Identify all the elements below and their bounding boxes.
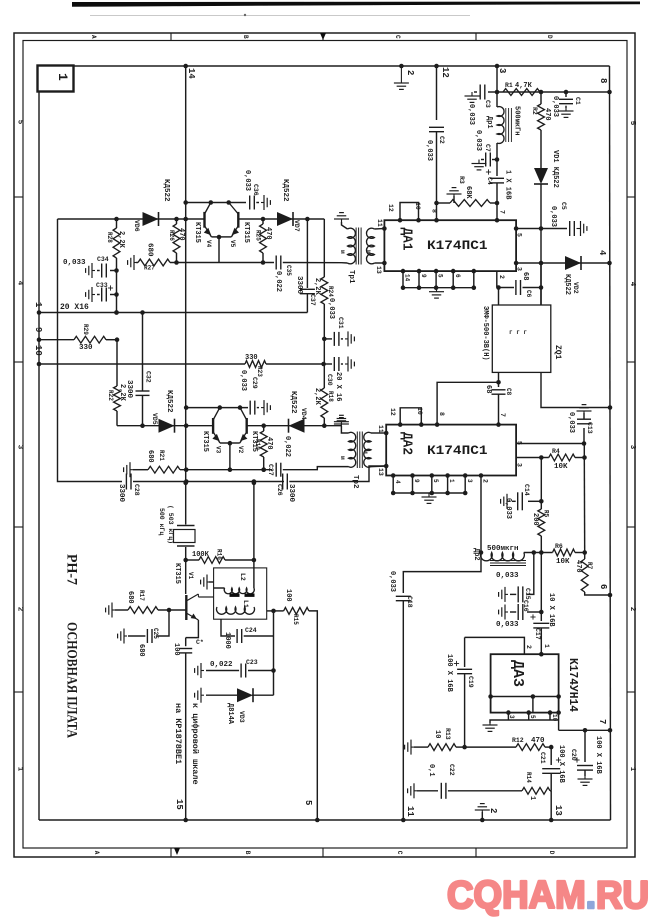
svg-text:1: 1	[628, 767, 636, 772]
wire pin8-pin7 with R3	[437, 202, 451, 204]
op-amp U DA3 K174UN14 box	[491, 654, 559, 712]
svg-text:0,033: 0,033	[496, 621, 519, 629]
node 12	[434, 64, 439, 69]
resistor R15	[284, 608, 309, 615]
svg-text:5: 5	[516, 233, 523, 237]
svg-text:9: 9	[33, 327, 43, 332]
frame zone ticks left	[14, 196, 23, 198]
svg-text:м: м	[339, 250, 346, 254]
resistor R12 row	[465, 746, 516, 748]
svg-text:R27: R27	[144, 265, 155, 272]
svg-text:A: A	[90, 35, 97, 39]
svg-text:12: 12	[387, 204, 394, 212]
wire pin2 row y637	[465, 637, 525, 654]
DA1 pin loop 12-10	[400, 203, 419, 221]
svg-text:С6: С6	[525, 290, 532, 298]
capacitor C13	[583, 428, 585, 444]
svg-text:1: 1	[33, 302, 43, 308]
capacitor C30 electrolytic	[324, 363, 332, 365]
svg-text:R6: R6	[555, 543, 563, 550]
capacitor C6	[515, 280, 517, 295]
svg-text:5: 5	[516, 441, 523, 445]
svg-text:С7: С7	[484, 144, 491, 152]
wire R15 row net 5	[267, 610, 274, 612]
svg-text:R14: R14	[525, 772, 532, 783]
wire left bus	[38, 92, 40, 821]
svg-text:470: 470	[574, 560, 582, 573]
svg-text:2,2К: 2,2К	[117, 231, 125, 249]
wire net 10	[39, 363, 245, 365]
wire R16 to L2	[253, 560, 255, 588]
svg-text:6: 6	[598, 584, 608, 589]
diode VD6	[143, 212, 159, 226]
svg-text:С25: С25	[152, 628, 159, 639]
resistor R3	[450, 200, 490, 207]
svg-text:10: 10	[551, 714, 558, 722]
capacitor C2	[429, 126, 444, 128]
svg-text:68: 68	[484, 385, 492, 393]
resistor R19	[263, 426, 265, 431]
wire net 8	[497, 91, 610, 93]
svg-text:470: 470	[531, 737, 545, 745]
svg-text:12: 12	[440, 67, 450, 78]
svg-text:0,033: 0,033	[549, 206, 557, 227]
capacitor C31	[324, 338, 332, 340]
resistor R23	[245, 361, 266, 368]
svg-text:С22: С22	[448, 764, 455, 776]
svg-text:R26: R26	[168, 230, 175, 241]
svg-text:R18: R18	[327, 391, 334, 402]
wire mid vertical bus net 14/15	[185, 66, 187, 525]
svg-text:Тр1: Тр1	[347, 270, 355, 284]
sheet number box 1	[38, 66, 74, 92]
svg-text:3: 3	[16, 445, 24, 450]
DA2 pin5 wire and C13	[516, 443, 584, 445]
svg-text:2: 2	[405, 70, 415, 75]
svg-text:R5: R5	[543, 510, 550, 518]
svg-text:470: 470	[265, 437, 273, 450]
DA1 pin 5 wire	[516, 228, 541, 230]
EMF top-left pin	[498, 288, 500, 306]
svg-text:VD4: VD4	[300, 408, 307, 420]
svg-text:0,033: 0,033	[239, 370, 247, 391]
svg-text:C: C	[394, 35, 401, 39]
DA1 pin 3 wire net 4	[516, 262, 609, 264]
svg-text:C: C	[396, 851, 403, 855]
svg-text:2: 2	[525, 645, 532, 649]
svg-text:на КР1878ВЕ1: на КР1878ВЕ1	[173, 703, 183, 764]
svg-text:КД522: КД522	[563, 274, 571, 295]
resistor R28	[116, 219, 118, 228]
svg-text:1: 1	[16, 767, 24, 772]
svg-text:10: 10	[414, 202, 421, 210]
svg-text:14: 14	[404, 274, 411, 282]
svg-text:С20: С20	[570, 749, 577, 761]
transistor V1 KT315	[185, 595, 187, 620]
svg-text:14: 14	[186, 68, 196, 79]
svg-text:С2: С2	[438, 136, 445, 144]
op-amp U DA1 K174PS1 box	[384, 220, 516, 271]
svg-text:С33: С33	[96, 282, 108, 289]
svg-text:м: м	[362, 450, 369, 454]
svg-text:( 503 кГц): ( 503 кГц)	[167, 505, 174, 544]
svg-text:С13: С13	[586, 422, 593, 434]
resistor R2	[540, 92, 542, 104]
wire net 15	[185, 653, 187, 820]
capacitor C35	[275, 256, 277, 270]
svg-text:11: 11	[405, 806, 415, 817]
svg-text:3: 3	[466, 479, 473, 483]
svg-text:R15: R15	[292, 614, 299, 625]
frame zone ticks top	[170, 33, 172, 41]
capacitor C14	[528, 500, 541, 502]
node 14	[183, 64, 188, 69]
svg-text:КД522: КД522	[289, 391, 297, 414]
svg-text:VD5: VD5	[151, 413, 158, 425]
svg-text:м: м	[339, 456, 346, 460]
transistor V2 KT315	[245, 418, 247, 434]
svg-text:R28: R28	[106, 232, 113, 243]
capacitor C5	[541, 228, 567, 230]
wire net 1 20x16	[39, 312, 307, 314]
svg-text:VD3: VD3	[238, 711, 245, 723]
DA1 bottom pins and ground rail	[402, 271, 404, 288]
capacitor C36	[249, 196, 251, 210]
capacitor C24	[221, 619, 235, 636]
transistor V3 KT315	[212, 418, 214, 434]
svg-text:С21: С21	[539, 752, 546, 764]
frame zone ticks right	[627, 196, 635, 198]
svg-text:11: 11	[377, 425, 384, 433]
svg-text:ДА1: ДА1	[399, 228, 415, 251]
svg-text:VD2: VD2	[572, 282, 579, 294]
svg-text:10: 10	[433, 730, 441, 738]
transformer Tr1	[348, 228, 356, 264]
wire base rail y219 left	[58, 218, 205, 220]
svg-text:С24: С24	[245, 627, 257, 634]
svg-text:С26: С26	[276, 484, 283, 496]
svg-text:B: B	[242, 35, 249, 39]
svg-text:5: 5	[303, 800, 313, 805]
transistor V4 KT315	[203, 212, 205, 228]
svg-text:С35: С35	[285, 265, 292, 276]
capacitor C28	[125, 474, 127, 490]
svg-text:1000: 1000	[223, 632, 231, 649]
diode VD2	[565, 256, 581, 270]
emitter rail wire y262 with R27	[134, 262, 136, 264]
svg-text:7: 7	[597, 719, 607, 724]
svg-text:100: 100	[172, 643, 180, 656]
svg-text:0,022: 0,022	[210, 661, 233, 669]
svg-text:2: 2	[16, 607, 24, 612]
capacitor C4 electrolytic	[490, 177, 504, 179]
crystal filter ZQ1 EMF-500-3V box	[492, 305, 551, 372]
svg-text:V5: V5	[229, 240, 236, 248]
svg-text:Д814А: Д814А	[226, 703, 234, 725]
svg-text:680: 680	[137, 644, 145, 657]
svg-text:R1: R1	[505, 82, 513, 89]
DA3 ground	[490, 720, 496, 723]
svg-text:10: 10	[416, 407, 423, 415]
svg-text:V1: V1	[187, 572, 194, 580]
svg-text:7: 7	[499, 210, 506, 214]
svg-text:0,033: 0,033	[567, 412, 575, 433]
resistor R21	[148, 466, 180, 473]
svg-text:R21: R21	[158, 450, 165, 461]
capacitor C16	[540, 553, 542, 613]
svg-text:10 Х 16В: 10 Х 16В	[547, 593, 555, 627]
svg-text:R13: R13	[444, 728, 451, 740]
svg-text:V4: V4	[205, 240, 212, 248]
svg-text:КТ315: КТ315	[173, 563, 181, 584]
svg-text:С8: С8	[505, 388, 512, 396]
svg-text:КД522: КД522	[281, 179, 289, 202]
resistor R27	[138, 259, 170, 266]
wire net 9 with R29	[39, 339, 74, 341]
transformer Tr2	[349, 432, 356, 467]
svg-text:100 Х 16В: 100 Х 16В	[557, 745, 565, 784]
svg-text:100 Х 16В: 100 Х 16В	[445, 654, 453, 693]
emitter rail 2 with R21	[130, 469, 133, 471]
resistor R29	[74, 336, 106, 343]
svg-text:5: 5	[16, 120, 24, 125]
svg-text:С18: С18	[406, 596, 413, 608]
svg-text:L2: L2	[239, 573, 246, 581]
svg-text:С16: С16	[522, 600, 529, 612]
wire net 12 to DA1 pin 8	[436, 66, 438, 120]
svg-text:Др2: Др2	[472, 548, 480, 561]
svg-text:ZQ1: ZQ1	[553, 345, 562, 360]
diode VD7 chain C37	[306, 219, 308, 288]
svg-text:7: 7	[499, 413, 506, 417]
svg-text:С14: С14	[523, 484, 530, 496]
resistor R22	[116, 340, 118, 386]
resistor R1	[503, 89, 540, 96]
svg-text:0,033: 0,033	[327, 298, 335, 319]
svg-text:5: 5	[437, 274, 444, 278]
capacitor C19 electrolytic	[464, 637, 466, 667]
svg-text:С31: С31	[337, 317, 344, 329]
svg-text:VD6: VD6	[133, 220, 140, 232]
svg-text:2,2К: 2,2К	[313, 278, 321, 296]
svg-text:V3: V3	[215, 446, 222, 454]
DA3 bottom pins	[507, 713, 509, 720]
wire x584 column	[583, 444, 585, 458]
svg-text:С30: С30	[326, 374, 333, 386]
svg-text:4: 4	[628, 282, 636, 287]
svg-text:0,033: 0,033	[63, 259, 86, 267]
capacitor C1	[565, 92, 567, 97]
svg-text:2,2К: 2,2К	[313, 388, 321, 406]
svg-text:100: 100	[284, 589, 292, 602]
core slugs	[230, 594, 240, 597]
DA3 pin 10 wire net 7	[558, 713, 560, 731]
wire right bus	[610, 66, 611, 820]
node 3	[495, 64, 500, 69]
svg-text:С5: С5	[560, 202, 567, 210]
svg-text:R19: R19	[254, 439, 261, 450]
capacitor C7	[496, 143, 498, 176]
svg-text:С29: С29	[251, 377, 258, 389]
capacitor C3	[488, 91, 497, 93]
capacitor C26	[282, 474, 284, 490]
svg-text:R25: R25	[255, 230, 262, 241]
svg-text:С37: С37	[309, 294, 316, 306]
svg-text:20 Х16: 20 Х16	[60, 303, 89, 312]
quartz crystal ZQ 500kHz	[183, 481, 188, 486]
svg-text:0,033: 0,033	[467, 104, 475, 125]
svg-text:10К: 10К	[556, 558, 570, 566]
resistor R25	[262, 219, 264, 224]
wire emitters V4 V5	[218, 237, 220, 263]
svg-text:С28: С28	[133, 484, 140, 496]
svg-text:A: A	[93, 851, 100, 855]
resistor R13 row	[411, 746, 414, 748]
wire R6 row	[539, 550, 544, 555]
svg-text:680: 680	[146, 243, 154, 257]
svg-text:0,022: 0,022	[283, 436, 291, 457]
svg-text:500мкГн: 500мкГн	[513, 106, 521, 135]
svg-text:L1: L1	[242, 600, 249, 608]
svg-text:V2: V2	[237, 446, 244, 454]
svg-text:13: 13	[553, 805, 563, 816]
DA2 pin 2 long stub	[480, 476, 482, 553]
svg-text:680: 680	[126, 591, 134, 604]
svg-text:20 Х 16: 20 Х 16	[334, 372, 342, 401]
wire net from y481 to R16	[253, 483, 255, 560]
svg-text:С27: С27	[267, 464, 274, 476]
svg-text:1 Х 16В: 1 Х 16В	[504, 170, 512, 200]
svg-text:2,2К: 2,2К	[118, 384, 126, 402]
wire base rail y425 right with VD4	[247, 425, 341, 427]
svg-text:2: 2	[628, 607, 636, 612]
svg-text:3300: 3300	[125, 380, 133, 399]
wire R16 row	[183, 558, 188, 563]
svg-text:1: 1	[528, 796, 536, 800]
svg-text:500 кГц: 500 кГц	[158, 508, 165, 535]
svg-text:ДА2: ДА2	[399, 432, 415, 455]
svg-text:3300: 3300	[117, 484, 125, 503]
ground net 2 bottom	[481, 812, 483, 820]
svg-text:0,022: 0,022	[274, 271, 282, 292]
svg-text:0,033: 0,033	[243, 170, 251, 191]
capacitor C33 electrolytic	[110, 294, 117, 296]
resistor R17 row	[112, 609, 115, 611]
wire base rail y425 left with VD5	[117, 425, 213, 427]
svg-text:4: 4	[16, 281, 24, 286]
wire top bus	[74, 65, 610, 67]
svg-text:D: D	[546, 35, 553, 39]
wire bottom bus	[39, 819, 611, 821]
svg-text:R7: R7	[586, 562, 593, 570]
capacitor C17 electrolytic	[540, 612, 542, 621]
svg-text:0,033: 0,033	[551, 96, 559, 117]
svg-text:С1: С1	[574, 97, 581, 105]
svg-text:0,033: 0,033	[474, 130, 482, 151]
small arrow marks on frame	[320, 33, 326, 40]
resistor R7 net 6	[584, 553, 586, 560]
svg-text:9: 9	[413, 479, 420, 483]
svg-text:8: 8	[431, 209, 438, 213]
svg-text:ОСНОВНАЯ ПЛАТА: ОСНОВНАЯ ПЛАТА	[64, 622, 80, 738]
svg-text:К174ПС1: К174ПС1	[427, 238, 488, 253]
EMF bottom-left pin to C8	[498, 372, 500, 387]
coil box L1 L2	[214, 568, 267, 619]
svg-text:470: 470	[543, 108, 551, 121]
svg-text:D: D	[548, 851, 555, 855]
svg-text:КТ315: КТ315	[201, 431, 209, 452]
svg-text:13: 13	[375, 266, 382, 274]
svg-text:10К: 10К	[554, 463, 568, 471]
svg-text:15: 15	[174, 799, 184, 810]
DA2 bottom pins and ground rail	[392, 476, 394, 494]
svg-text:г г г: г г г	[509, 329, 527, 336]
capacitor C29	[249, 401, 251, 415]
svg-text:5: 5	[529, 715, 536, 719]
svg-text:к цифровой шкале: к цифровой шкале	[190, 703, 200, 785]
svg-text:470: 470	[177, 228, 185, 241]
DA2 pin 8 wire	[437, 382, 498, 424]
wire lower rail y481 with C28 C26	[58, 219, 123, 482]
resistor R16	[199, 557, 225, 564]
svg-text:0,1: 0,1	[427, 764, 435, 777]
svg-text:R22: R22	[107, 390, 114, 401]
svg-text:С3: С3	[484, 100, 491, 108]
svg-text:68К: 68К	[464, 186, 472, 199]
svg-text:100К: 100К	[192, 551, 210, 559]
svg-text:10: 10	[33, 345, 43, 356]
svg-text:ЭМФ-500-3В(Н): ЭМФ-500-3В(Н)	[481, 306, 489, 361]
wire x541 column	[540, 458, 542, 510]
svg-text:8: 8	[598, 78, 608, 83]
diode VD1	[534, 168, 548, 184]
capacitor C34	[110, 270, 117, 272]
V1 emitter chain capacitor C*	[186, 620, 199, 638]
resistor R14	[522, 787, 550, 794]
svg-text:B: B	[244, 851, 251, 855]
svg-text:КТ315: КТ315	[193, 222, 201, 243]
capacitor C20 electrolytic	[584, 730, 586, 762]
svg-text:R2: R2	[531, 107, 538, 115]
inductor Dr2 with core	[479, 550, 484, 555]
capacitor C23	[248, 670, 274, 672]
svg-text:2: 2	[498, 275, 505, 279]
svg-text:К174УН14: К174УН14	[566, 658, 579, 712]
svg-text:3: 3	[516, 267, 523, 271]
svg-text:100 Х 16В: 100 Х 16В	[594, 736, 602, 775]
svg-text:R29: R29	[82, 324, 89, 335]
diode VD5	[159, 419, 175, 433]
DA2 pin loop 12-10	[400, 408, 421, 425]
svg-text:200: 200	[531, 513, 539, 526]
resistor R24	[323, 219, 325, 277]
svg-text:КД522: КД522	[165, 390, 173, 413]
wire feedback x273	[273, 611, 275, 695]
svg-text:R24: R24	[327, 286, 334, 297]
svg-text:5: 5	[628, 121, 636, 126]
ground at L2 left	[214, 587, 225, 589]
transistor V5 KT315	[237, 212, 239, 228]
EMF bottom-right pin wire to bus	[541, 372, 610, 407]
diode VD7	[277, 212, 293, 226]
wire EMF top right to VD2 node	[540, 263, 542, 305]
svg-text:13: 13	[377, 468, 384, 476]
svg-text:С19: С19	[467, 676, 474, 688]
svg-text:11: 11	[376, 219, 383, 227]
svg-text:5: 5	[432, 479, 439, 483]
svg-text:9: 9	[420, 274, 427, 278]
svg-text:2: 2	[482, 479, 489, 483]
